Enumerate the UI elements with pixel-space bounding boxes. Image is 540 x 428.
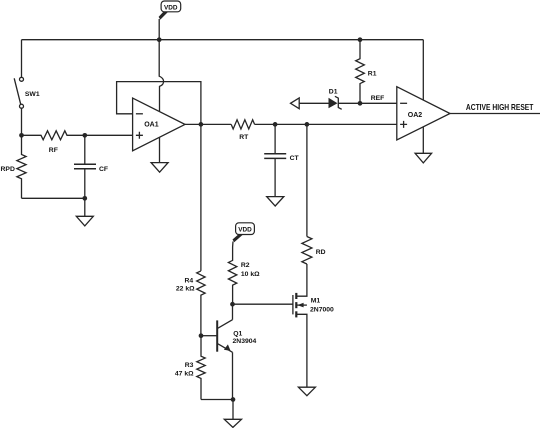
node D junction CT	[273, 122, 278, 127]
wire OA1 ground pin	[159, 137, 161, 162]
op-amp OA2	[397, 87, 450, 140]
svg-text:2N3904: 2N3904	[233, 338, 257, 345]
wire OA2 power pin	[422, 40, 424, 100]
node REF junction	[358, 101, 363, 106]
wire ground stem bottom	[232, 400, 234, 420]
svg-text:R3: R3	[185, 362, 194, 369]
node R2 collector gate junction	[230, 302, 235, 307]
wire RPD bottom to node C	[22, 197, 85, 199]
svg-text:R2: R2	[241, 262, 250, 269]
wire feedback loop OA1	[117, 82, 201, 125]
wire OA1 output	[185, 123, 231, 125]
svg-text:CF: CF	[99, 166, 108, 173]
wire Q1 emitter down	[232, 352, 234, 399]
node VDD bus junction	[157, 37, 162, 42]
svg-text:SW1: SW1	[25, 91, 40, 98]
wire RD to M1 drain	[297, 264, 307, 296]
svg-text:VDD: VDD	[238, 227, 252, 234]
wire OA2 ground pin	[422, 127, 424, 153]
op-amp OA1	[133, 98, 185, 151]
wire M1 source to ground	[297, 314, 307, 387]
arrow connector left	[291, 98, 300, 109]
wire node E down to RD	[306, 124, 308, 236]
svg-text:R4: R4	[185, 277, 194, 284]
switch SW1	[14, 77, 40, 108]
svg-text:REF: REF	[371, 95, 385, 102]
svg-text:ACTIVE HIGH RESET: ACTIVE HIGH RESET	[466, 103, 534, 113]
resistor R4 22 kOhm	[176, 271, 205, 336]
svg-text:OA1: OA1	[144, 121, 159, 128]
wire OA1 output down to R4	[200, 124, 202, 271]
node A junction	[19, 133, 24, 138]
node R1 top bus junction	[358, 37, 363, 42]
resistor RPD	[1, 135, 27, 198]
wire arrow to D1 anode	[299, 102, 328, 104]
wire Q1 base	[201, 335, 217, 337]
wire SW1 to node A	[21, 108, 23, 135]
node C junction	[82, 196, 87, 201]
node Q1 base junction	[199, 333, 204, 338]
resistor R2 10 kOhm	[228, 242, 260, 305]
ground below OA2	[415, 153, 432, 163]
resistor RD	[302, 237, 326, 264]
wire OA2 output	[450, 113, 540, 115]
node OA1 output junction	[199, 122, 204, 127]
svg-text:RPD: RPD	[1, 166, 15, 173]
ground below CF	[76, 198, 93, 226]
node B junction	[82, 133, 87, 138]
svg-text:2N7000: 2N7000	[310, 307, 334, 314]
wire RT to OA2 plus input	[255, 123, 397, 125]
wire M1 gate	[233, 303, 293, 305]
svg-text:VDD: VDD	[164, 4, 178, 11]
resistor R1	[356, 40, 377, 104]
wire bottom R3 to emitter node	[201, 399, 233, 401]
ground below M1	[298, 387, 315, 396]
svg-text:RD: RD	[316, 249, 326, 256]
svg-text:RF: RF	[49, 147, 58, 154]
wire D1 cathode to OA2 minus	[338, 102, 397, 104]
node emitter ground junction	[231, 397, 236, 402]
ground below CT	[267, 197, 284, 206]
diode D1 zener	[329, 88, 342, 109]
capacitor CT	[264, 124, 299, 196]
wire top supply bus	[22, 39, 424, 41]
svg-text:RT: RT	[239, 134, 249, 141]
capacitor CF	[74, 135, 108, 198]
svg-text:M1: M1	[311, 298, 321, 305]
ground below Q1 emitter	[224, 419, 241, 427]
power symbol VDD (top)	[159, 1, 181, 20]
svg-text:Q1: Q1	[233, 331, 242, 338]
wire Q1 collector	[232, 304, 234, 320]
power symbol VDD (middle)	[233, 223, 255, 242]
transistor Q1 2N3904	[217, 320, 256, 353]
svg-text:47 kΩ: 47 kΩ	[175, 371, 194, 378]
transistor M1 2N7000	[293, 293, 334, 318]
resistor RF	[22, 131, 133, 154]
svg-text:R1: R1	[368, 70, 377, 77]
wire left drop to SW1	[21, 40, 23, 78]
wire VDD to OA1 power pin with hop	[159, 19, 163, 111]
node E junction RD	[305, 122, 310, 127]
svg-text:10 kΩ: 10 kΩ	[241, 271, 260, 278]
svg-text:CT: CT	[290, 155, 300, 162]
resistor R3 47 kOhm	[175, 336, 205, 400]
svg-text:22 kΩ: 22 kΩ	[176, 285, 195, 292]
ground below OA1	[151, 163, 168, 173]
resistor RT	[231, 120, 254, 141]
svg-text:D1: D1	[329, 88, 338, 95]
svg-text:OA2: OA2	[408, 112, 423, 119]
